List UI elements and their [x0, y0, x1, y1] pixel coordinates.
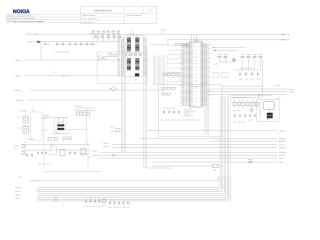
svg-text:VBACK: VBACK: [14, 146, 19, 148]
net label AUX: [15, 59, 21, 62]
baseband decoupling parts: [160, 88, 200, 121]
svg-text:C2481: C2481: [46, 44, 50, 46]
ferrite L2800: [176, 43, 184, 45]
header CONFIDENTIAL: [93, 9, 113, 12]
svg-text:1/1: 1/1: [149, 9, 152, 12]
svg-text:PURX: PURX: [88, 157, 92, 159]
header left rules: [6, 14, 81, 22]
svg-text:C2129: C2129: [94, 206, 98, 208]
svg-text:R216: R216: [95, 34, 98, 36]
bus band right vertical: [220, 97, 230, 177]
bus band right of connector: [144, 46, 147, 168]
top mid text: [55, 52, 70, 54]
svg-text:CBUSCLK: CBUSCLK: [103, 146, 109, 148]
net label VANA: [27, 41, 33, 44]
svg-text:R212: R212: [102, 30, 105, 32]
svg-text:C2004 C2005 C2006: C2004 C2005 C2006: [38, 164, 50, 166]
svg-text:C2803: C2803: [257, 79, 261, 81]
svg-text:C2875: C2875: [239, 79, 243, 81]
svg-text:R2894: R2894: [218, 54, 222, 56]
small circle mid: [113, 154, 115, 156]
svg-text:C2103: C2103: [113, 207, 117, 209]
svg-text:R220: R220: [118, 34, 121, 36]
svg-text:R2830 R2831: R2830 R2831: [233, 110, 241, 112]
wire osc top: [230, 95, 272, 97]
series resistors R27xx: [163, 72, 180, 76]
svg-text:C2211: C2211: [62, 76, 66, 78]
connector X2600 left pins: [118, 37, 125, 77]
IC D2800 right pins: [200, 43, 211, 106]
svg-text:TS07 - Only for training and s: TS07 - Only for training and service pur…: [6, 20, 44, 23]
header doc row 3: [82, 21, 94, 24]
svg-text:R214: R214: [112, 30, 115, 32]
connector X2600 pin bars: [124, 36, 144, 77]
wire VBAT bus: [35, 33, 290, 35]
svg-text:VANA: VANA: [280, 39, 286, 42]
svg-text:R2816: R2816: [213, 170, 217, 172]
wires bundle to IC: [167, 46, 185, 82]
header doc row 1: [82, 14, 96, 17]
earpiece B2201: [109, 87, 118, 91]
svg-text:C2414: C2414: [58, 44, 62, 46]
svg-text:GND: GND: [134, 80, 137, 82]
svg-text:V2002: V2002: [17, 128, 21, 130]
left caps C20xx: [26, 153, 33, 157]
svg-text:G2800: G2800: [277, 98, 281, 100]
wire VANA bus: [33, 41, 122, 43]
svg-text:R213: R213: [107, 30, 110, 32]
resistor R2816: [213, 164, 218, 171]
svg-text:R2811: R2811: [259, 54, 263, 56]
svg-text:C2431: C2431: [82, 44, 86, 46]
svg-text:R211: R211: [97, 30, 100, 32]
mid resistor row: [75, 106, 96, 147]
svg-text:Z2820 Z2821 Z2822: Z2820 Z2821 Z2822: [233, 97, 245, 99]
wire headint: [28, 99, 122, 101]
header doc row 2: [82, 18, 99, 21]
IC D2800 right bundle: [205, 44, 209, 135]
keyboard bus wires: [37, 176, 230, 201]
right bus wires: [92, 130, 288, 164]
wire mid link2: [147, 166, 223, 168]
svg-text:VBAT C2400: VBAT C2400: [26, 33, 36, 36]
net label HOOK: [14, 89, 22, 92]
svg-text:CBUSENX: CBUSENX: [91, 151, 97, 153]
svg-text:V2000: V2000: [17, 117, 21, 119]
svg-text:R210: R210: [92, 30, 95, 32]
filter cluster R22xx: [89, 30, 121, 42]
svg-text:N2000: N2000: [50, 145, 54, 147]
left transistors V2000: [17, 110, 48, 171]
wire VANA drop: [40, 42, 42, 60]
bus band left of connector: [122, 42, 126, 152]
net label HEADINT: [16, 99, 23, 102]
off-page label VIO: [280, 39, 286, 42]
svg-text:R2894: R2894: [247, 54, 251, 56]
wire aux: [24, 59, 121, 61]
svg-text:R215: R215: [117, 30, 120, 32]
svg-text:VANA: VANA: [27, 41, 33, 44]
IC D2800 label: [194, 39, 199, 42]
svg-text:NOKIA: NOKIA: [13, 9, 30, 15]
svg-text:C2171: C2171: [118, 207, 122, 209]
IC D2800 body: [190, 42, 203, 107]
charging circuit cluster: [14, 137, 100, 179]
IC D2800 left pins: [180, 43, 198, 106]
mid line start labels: [84, 143, 109, 158]
svg-text:V2001: V2001: [23, 142, 27, 144]
decoupling capacitors C24xx: [44, 42, 98, 46]
header page number: [149, 9, 152, 12]
junction dots V2800: [213, 47, 216, 51]
svg-text:C2417: C2417: [94, 44, 98, 46]
wire mid link: [152, 165, 214, 167]
svg-text:C2854: C2854: [245, 79, 249, 81]
header version cell: [127, 14, 142, 17]
svg-text:R2886: R2886: [241, 54, 245, 56]
svg-text:R2815: R2815: [248, 159, 252, 161]
svg-text:VBAT: VBAT: [280, 33, 286, 36]
svg-text:1.2V: 1.2V: [127, 80, 130, 82]
connector X2600 label: [129, 33, 134, 36]
svg-text:CONFIDENTIAL: CONFIDENTIAL: [93, 9, 113, 12]
resistor on MBUS: [248, 159, 252, 163]
svg-text:C2860 C2861 C2862: C2860 C2861 C2862: [163, 108, 175, 110]
svg-text:C2804: C2804: [251, 79, 255, 81]
svg-text:R2020 C2021: R2020 C2021: [26, 139, 34, 141]
svg-text:Technical Services Training Gr: Technical Services Training Group: [6, 17, 35, 20]
component field right of CPU: [212, 48, 263, 98]
svg-text:R217: R217: [101, 34, 104, 36]
header address line 1: [6, 15, 33, 18]
svg-text:R2813: R2813: [224, 54, 228, 56]
wires CPU to RF: [208, 88, 296, 96]
svg-text:Customer Care Europe & Africa: Customer Care Europe & Africa: [6, 15, 33, 18]
svg-text:C2403: C2403: [64, 44, 68, 46]
svg-text:VIO: VIO: [131, 30, 133, 32]
shield box audio: [97, 52, 147, 84]
connector bottom text: [127, 80, 137, 82]
svg-text:R2210: R2210: [52, 72, 56, 74]
svg-text:C2125: C2125: [122, 207, 126, 209]
svg-text:EAD XEAR HOOK MICB: EAD XEAR HOOK MICB: [55, 52, 70, 54]
junction VBAT: [37, 41, 40, 43]
svg-text:C2830 C2831 C2832: C2830 C2831 C2832: [233, 122, 245, 124]
header table frame: [81, 6, 157, 23]
wire VIO corner: [150, 40, 290, 45]
svg-text:N2001: N2001: [32, 110, 36, 112]
connector top wires: [128, 30, 139, 36]
junction circle: [55, 199, 57, 201]
wire keyb0: [37, 176, 219, 181]
off-page label VBAT: [280, 33, 286, 36]
transistor V2801: [185, 43, 189, 47]
left mid specks: [52, 72, 66, 78]
svg-text:R218: R218: [107, 34, 110, 36]
svg-text:C2111: C2111: [85, 206, 89, 208]
svg-text:R2060: R2060: [110, 127, 114, 129]
bus labels left: [15, 186, 22, 200]
Nokia logo: [13, 9, 30, 15]
header notice line: [6, 20, 44, 23]
svg-text:GND: GND: [18, 177, 21, 179]
bundle box: [154, 56, 168, 85]
svg-text:Z2200: Z2200: [108, 53, 112, 55]
svg-text:32.768kHz: 32.768kHz: [44, 115, 51, 117]
net label RFC: [274, 84, 280, 87]
mid cross parts: [110, 127, 120, 132]
svg-text:C2191: C2191: [127, 207, 131, 209]
shield box baseband: [159, 85, 223, 137]
net label AUX2: [15, 75, 20, 78]
svg-text:V2800: V2800: [214, 64, 218, 66]
IC D2800 bottom labels: [184, 110, 196, 117]
microphone B2200: [98, 56, 106, 62]
svg-text:R219: R219: [113, 34, 116, 36]
svg-text:C2127: C2127: [89, 206, 93, 208]
svg-text:C2850: C2850: [248, 120, 252, 122]
keyboard filter caps: [85, 197, 131, 209]
crystal B2200: [44, 115, 88, 135]
svg-text:R2200 R2201: R2200 R2201: [75, 106, 83, 108]
filter row Z28xx: [233, 97, 259, 123]
svg-text:B2800: B2800: [266, 119, 270, 121]
net label ROW: [30, 179, 38, 182]
wire hook: [30, 89, 165, 91]
svg-text:R2820 R2821 R2822: R2820 R2821 R2822: [240, 68, 252, 70]
mic filter parts: [108, 53, 116, 57]
wire aux2: [24, 75, 121, 77]
net label top mid: [160, 28, 165, 33]
connector X2600 right pins: [144, 37, 148, 76]
oscillator G2800: [248, 95, 281, 122]
svg-text:Z2400: Z2400: [89, 34, 93, 36]
svg-text:R2105: R2105: [102, 205, 106, 207]
header address line 2: [6, 17, 35, 20]
bus bundle to baseband: [155, 57, 165, 85]
wire shield top ext: [222, 85, 262, 87]
IC D2800 top wires: [192, 34, 202, 42]
net label VBAT: [26, 33, 36, 36]
svg-text:CBUSDA: CBUSDA: [103, 143, 109, 145]
svg-text:R2869: R2869: [253, 54, 257, 56]
svg-text:B2200: B2200: [56, 132, 60, 134]
svg-text:C2177: C2177: [109, 207, 113, 209]
